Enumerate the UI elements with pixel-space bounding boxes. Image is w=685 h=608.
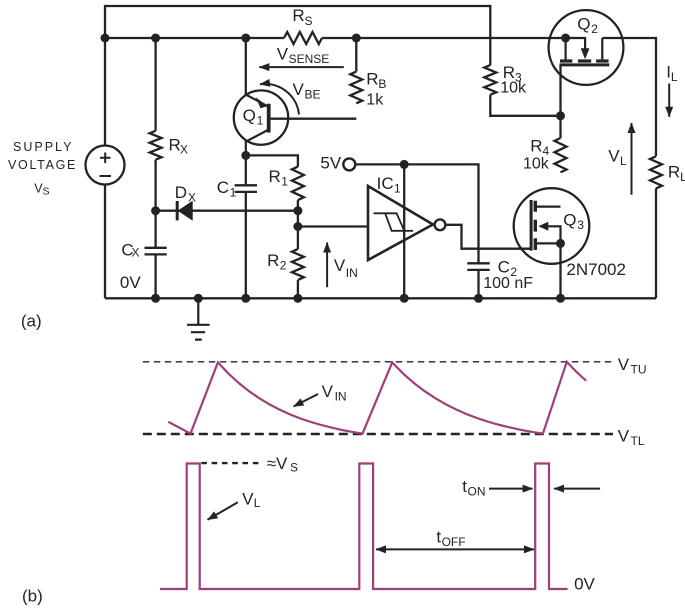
svg-text:S: S <box>43 186 50 198</box>
svg-text:IN: IN <box>346 266 358 280</box>
svg-text:Q: Q <box>577 14 590 33</box>
wire IC1 power <box>403 164 405 298</box>
svg-text:OFF: OFF <box>442 535 466 549</box>
svg-text:C: C <box>217 178 229 197</box>
wire 5V rail <box>355 164 478 262</box>
wire R4 leads <box>559 116 561 138</box>
wire Q1 base <box>271 118 357 120</box>
svg-text:2N7002: 2N7002 <box>566 260 626 279</box>
svg-text:1k: 1k <box>366 91 384 108</box>
svg-text:X: X <box>132 246 140 260</box>
svg-text:1: 1 <box>281 175 288 189</box>
wire CX bottom <box>154 254 156 298</box>
wire VS+ rail <box>104 185 106 299</box>
resistor R4 <box>555 138 567 172</box>
IC1 hysteresis <box>374 213 414 231</box>
svg-text:D: D <box>175 183 187 202</box>
capacitor CX <box>145 248 167 255</box>
transistor Q1 <box>234 90 288 144</box>
wire DX node <box>156 210 298 212</box>
svg-text:5V: 5V <box>320 154 341 173</box>
resistor RX <box>150 131 162 160</box>
arrow VIN circuit <box>326 243 328 288</box>
svg-text:C: C <box>498 258 510 277</box>
resistor R3 <box>484 65 496 95</box>
svg-text:VOLTAGE: VOLTAGE <box>8 158 77 172</box>
svg-text:B: B <box>378 77 386 91</box>
svg-text:V: V <box>618 355 630 374</box>
wire R3 bottom <box>490 95 560 116</box>
ground <box>187 298 210 339</box>
wire RL bottom <box>655 188 657 298</box>
svg-text:0V: 0V <box>120 273 141 292</box>
wire collector node <box>246 155 298 166</box>
svg-text:X: X <box>180 143 188 157</box>
svg-text:SUPPLY: SUPPLY <box>13 140 73 154</box>
diode DX <box>177 201 192 220</box>
svg-text:2: 2 <box>280 258 287 272</box>
svg-text:V: V <box>322 382 334 401</box>
svg-text:X: X <box>188 191 196 205</box>
svg-text:S: S <box>290 461 298 475</box>
svg-text:≈V: ≈V <box>267 454 288 473</box>
arrow VIN wave <box>294 394 319 407</box>
wire C1 bottom <box>245 192 247 298</box>
wire IC1 output <box>445 225 531 249</box>
wire IC1 input <box>298 225 368 227</box>
svg-text:0V: 0V <box>574 575 595 594</box>
arrow tON right <box>489 488 533 490</box>
dashed approx VS <box>201 462 262 464</box>
svg-text:R: R <box>366 70 378 89</box>
wire sense rail right <box>322 37 566 39</box>
wire Q3 source <box>559 243 561 298</box>
wire Q1 emitter <box>245 38 247 95</box>
IC1 bubble <box>435 219 446 230</box>
svg-text:R: R <box>267 251 279 270</box>
wire RX to DX node <box>154 160 156 247</box>
wire ground rail <box>105 297 656 299</box>
svg-text:10k: 10k <box>500 80 527 97</box>
svg-text:V: V <box>618 427 630 446</box>
svg-text:R: R <box>668 163 680 182</box>
svg-text:R: R <box>530 136 542 155</box>
terminal 5V <box>343 158 355 170</box>
svg-text:R: R <box>169 135 181 154</box>
svg-text:L: L <box>671 70 678 84</box>
wire C2 bottom <box>477 270 479 298</box>
svg-text:V: V <box>334 256 346 275</box>
svg-text:R: R <box>292 6 304 25</box>
svg-text:V: V <box>608 147 620 166</box>
svg-text:S: S <box>305 14 313 28</box>
waveform VIN <box>168 362 586 434</box>
wire RX top <box>154 38 156 131</box>
arrow VL wave <box>208 502 238 520</box>
svg-text:IC: IC <box>377 174 394 193</box>
transistor Q3 <box>514 188 590 264</box>
svg-text:TL: TL <box>631 434 645 448</box>
svg-text:L: L <box>254 496 261 510</box>
svg-text:2: 2 <box>591 22 598 36</box>
svg-text:IN: IN <box>335 390 347 404</box>
resistor RS <box>284 32 322 44</box>
svg-text:V: V <box>242 489 254 508</box>
svg-text:(a): (a) <box>21 312 42 331</box>
resistor R2 <box>292 249 304 280</box>
svg-text:10k: 10k <box>523 156 550 173</box>
transistor Q2 <box>549 10 624 85</box>
wire RB leads <box>355 38 357 72</box>
arrow IL <box>668 84 670 117</box>
capacitor C2 <box>467 263 489 270</box>
arrow tOFF <box>376 548 534 550</box>
svg-text:Q: Q <box>563 211 576 230</box>
arrow VSENSE <box>259 66 344 68</box>
arrow VL circuit <box>631 123 633 195</box>
wire Q2 drain to RL <box>602 38 656 156</box>
wire sense rail <box>105 37 284 39</box>
wire R1 bottom <box>297 200 299 249</box>
resistor RB <box>350 72 362 104</box>
waveform VL <box>160 464 568 590</box>
arrow VBE arc <box>260 84 299 115</box>
svg-text:(b): (b) <box>22 587 43 606</box>
wire R2 bottom <box>297 280 299 298</box>
svg-text:R: R <box>269 167 281 186</box>
capacitor C1 <box>235 155 257 192</box>
wire Q2 gate <box>559 65 561 116</box>
svg-text:100 nF: 100 nF <box>483 275 533 292</box>
resistor R1 <box>292 167 304 201</box>
svg-text:1: 1 <box>230 186 237 200</box>
svg-text:Q: Q <box>243 106 256 125</box>
supply source VS <box>86 146 125 185</box>
svg-text:L: L <box>620 154 627 168</box>
svg-text:1: 1 <box>394 182 401 196</box>
svg-text:1: 1 <box>257 113 264 127</box>
svg-text:ON: ON <box>468 485 486 499</box>
arrow tON left <box>554 488 600 490</box>
dashed VTL <box>143 433 613 436</box>
svg-text:TU: TU <box>631 362 647 376</box>
dashed VTU <box>143 361 612 363</box>
wire top rail <box>105 6 490 146</box>
svg-text:3: 3 <box>577 218 584 232</box>
svg-text:V: V <box>293 80 305 99</box>
resistor RL <box>650 156 662 188</box>
svg-text:V: V <box>277 45 289 64</box>
op-amp IC1 <box>368 186 433 260</box>
svg-text:BE: BE <box>305 88 321 102</box>
arrows <box>259 67 669 287</box>
svg-text:L: L <box>680 170 685 184</box>
plus sign <box>100 153 112 177</box>
svg-text:SENSE: SENSE <box>289 52 330 66</box>
